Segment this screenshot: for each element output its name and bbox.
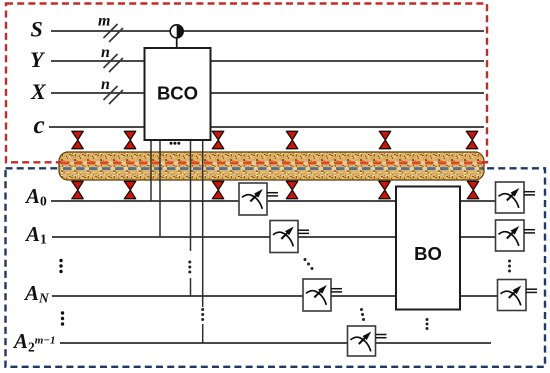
wire X xyxy=(51,92,484,94)
svg-text:AN: AN xyxy=(23,281,50,306)
measurement gate M1 on A0 xyxy=(239,183,278,215)
ellipsis between AN and A2m-1 labels xyxy=(61,311,64,325)
BCO control stem xyxy=(176,37,178,49)
label A0 xyxy=(24,184,47,209)
connector from BCO to AN (interrupted by dots) xyxy=(190,140,192,296)
diagonal ellipsis after M2 xyxy=(304,258,314,270)
measurement gate M6 on A1 (right) xyxy=(496,220,536,251)
bowtie a-6 xyxy=(467,181,478,198)
wire S xyxy=(51,30,484,32)
wire c xyxy=(49,126,484,128)
svg-text:BO: BO xyxy=(414,243,442,264)
svg-text:A1: A1 xyxy=(24,222,47,247)
svg-text:A2m−1: A2m−1 xyxy=(12,329,56,355)
half-filled control dot on S xyxy=(170,25,183,38)
bowtie c-3 xyxy=(212,131,223,148)
ellipsis between A1 and AN labels xyxy=(59,259,62,273)
label A2m-1 xyxy=(12,329,56,355)
wire A1 xyxy=(52,236,496,238)
bowtie a-3 xyxy=(212,181,223,198)
connector from BCO to A2m-1 (interrupted by dots) xyxy=(202,140,204,343)
bowtie a-2 xyxy=(124,181,135,198)
connector from BCO to A0 xyxy=(150,140,152,201)
bowtie a-5 xyxy=(379,181,390,198)
op box BO U2 xyxy=(396,187,460,310)
bus slash m on S xyxy=(98,13,123,43)
svg-text:n: n xyxy=(101,44,110,61)
bus slash n on Y xyxy=(101,44,123,72)
bowtie c-2 xyxy=(124,131,135,148)
bowtie c-1 xyxy=(72,131,83,148)
textured interaction bar xyxy=(59,152,484,180)
measurement gate M4 on A2m-1 xyxy=(348,326,387,356)
svg-text:BCO: BCO xyxy=(157,83,198,104)
measurement gate M5 on A0 (right) xyxy=(496,182,536,213)
svg-text:n: n xyxy=(101,76,110,93)
svg-text:S: S xyxy=(31,17,43,42)
measurement gate M3 on AN xyxy=(303,279,342,311)
in-bar blue dashed seam xyxy=(61,167,482,171)
ellipsis under BCO xyxy=(170,142,181,145)
label c xyxy=(34,112,45,139)
label A1 xyxy=(24,222,47,247)
bowtie c-6 xyxy=(466,131,477,148)
svg-text:m: m xyxy=(98,13,110,30)
measurement gate M2 on A1 xyxy=(270,221,309,253)
label X xyxy=(30,79,47,104)
bus slash n on X xyxy=(101,76,123,104)
red dashed box (BCO register boundary) xyxy=(6,4,487,163)
connector from BCO to A1 xyxy=(159,140,161,237)
wire A2m-1 xyxy=(60,342,491,344)
ellipsis dots on A2m-1 connector xyxy=(201,308,204,321)
svg-text:X: X xyxy=(30,79,47,104)
wire Y xyxy=(51,60,484,62)
measurement gate M7 on AN (right) xyxy=(498,280,538,311)
label AN xyxy=(23,281,50,306)
bowtie c-4 xyxy=(286,131,297,148)
ellipsis after M3 xyxy=(360,308,365,321)
in-bar red dashed seam xyxy=(61,161,482,165)
ellipsis under BO xyxy=(426,318,429,330)
bowtie a-1 xyxy=(72,181,83,198)
svg-text:A0: A0 xyxy=(24,184,47,209)
label Y xyxy=(30,47,46,72)
blue dashed box (ancilla register boundary) xyxy=(6,168,546,366)
ellipsis dots on AN connector xyxy=(188,261,191,274)
svg-text:c: c xyxy=(34,112,45,139)
ellipsis right column between M6 M7 xyxy=(508,260,511,273)
op box BCO U1 xyxy=(145,48,211,140)
wire A0 xyxy=(51,200,496,202)
label S xyxy=(31,17,43,42)
svg-text:Y: Y xyxy=(30,47,46,72)
wire AN xyxy=(52,295,498,297)
bowtie a-4 xyxy=(286,181,297,198)
bowtie c-5 xyxy=(379,131,390,148)
